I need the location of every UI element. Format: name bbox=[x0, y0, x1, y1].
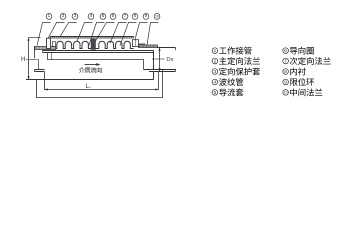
limit ring block bbox=[133, 40, 139, 47]
svg-text:6: 6 bbox=[112, 13, 115, 19]
callout circle 3 bbox=[72, 14, 78, 20]
callout circle 8 bbox=[132, 14, 138, 20]
legend item 6 bbox=[283, 48, 289, 54]
svg-text:5: 5 bbox=[102, 13, 105, 19]
callout circle 10 bbox=[154, 14, 160, 20]
weld hatch right bbox=[139, 44, 146, 46]
callout circle 4 bbox=[88, 14, 94, 20]
right pipe bottom bbox=[144, 69, 176, 71]
guide ring dark column bbox=[91, 39, 96, 50]
legend item 10 bbox=[283, 90, 289, 96]
svg-text:7: 7 bbox=[124, 13, 127, 19]
svg-text:3: 3 bbox=[214, 69, 217, 74]
svg-text:1: 1 bbox=[48, 13, 51, 19]
shell bottom bbox=[26, 79, 154, 81]
callout 1 leader bbox=[37, 23, 51, 46]
bellows wave bbox=[56, 41, 134, 48]
legend item 7 bbox=[283, 58, 289, 64]
svg-text:8: 8 bbox=[284, 69, 287, 74]
callout 10 leader bbox=[147, 23, 159, 46]
legend item 9 bbox=[283, 79, 289, 85]
centerline ticks bbox=[26, 59, 39, 61]
callout 9 leader bbox=[135, 23, 148, 42]
callout circle 6 bbox=[110, 14, 116, 20]
svg-text:9: 9 bbox=[284, 80, 287, 85]
svg-text:4: 4 bbox=[214, 80, 217, 85]
inner liner outline bbox=[48, 53, 144, 70]
svg-text:1: 1 bbox=[214, 48, 217, 53]
callout 2 leader bbox=[48, 23, 65, 40]
right pipe mouth bbox=[175, 48, 177, 51]
left inner step bbox=[38, 60, 40, 70]
legend item 1 bbox=[212, 48, 218, 54]
flow arrow bbox=[85, 64, 99, 66]
bottom extension box bbox=[37, 70, 163, 98]
right pipe hatched strip bbox=[139, 45, 158, 48]
svg-text:5: 5 bbox=[214, 90, 217, 95]
svg-text:9: 9 bbox=[145, 13, 148, 19]
callout 4 leader bbox=[77, 23, 93, 42]
right pipe top bbox=[158, 47, 176, 49]
dimension H bbox=[28, 38, 30, 80]
svg-text:10: 10 bbox=[284, 90, 288, 94]
legend item 2 bbox=[212, 58, 218, 64]
left work pipe mouth bbox=[34, 47, 36, 59]
flow direction text bbox=[79, 67, 85, 73]
left flange hatched strip bbox=[35, 47, 56, 50]
svg-text:2: 2 bbox=[62, 13, 65, 19]
left pipe bottom wall bbox=[35, 69, 45, 71]
svg-text:8: 8 bbox=[134, 13, 137, 19]
callout 6 leader bbox=[94, 23, 115, 45]
callout 3 leader bbox=[60, 23, 77, 37]
expansion joint technical drawing bbox=[0, 0, 350, 107]
callout circle 7 bbox=[122, 14, 128, 20]
callout 7 leader bbox=[110, 23, 127, 44]
bellows root collar bbox=[53, 42, 56, 47]
legend item 8 bbox=[283, 69, 289, 75]
callout circle 2 bbox=[60, 14, 66, 20]
shell right end wall bbox=[153, 51, 155, 70]
dimension Dx bbox=[159, 48, 161, 72]
callout 8 leader bbox=[120, 23, 137, 46]
protective sleeve top strip bbox=[50, 36, 134, 38]
dimension L bbox=[45, 72, 159, 90]
svg-text:3: 3 bbox=[74, 13, 77, 19]
svg-text:Dx: Dx bbox=[166, 57, 173, 63]
svg-text:H: H bbox=[21, 56, 25, 63]
legend item 4 bbox=[212, 79, 218, 85]
callout circle 5 bbox=[100, 14, 106, 20]
svg-text:4: 4 bbox=[90, 13, 93, 19]
svg-text:2: 2 bbox=[214, 59, 217, 64]
callout circle 1 bbox=[46, 14, 52, 20]
callout circle 9 bbox=[143, 14, 149, 20]
legend item 5 bbox=[212, 90, 218, 96]
svg-text:10: 10 bbox=[155, 14, 159, 18]
main directional flange block bbox=[47, 38, 51, 48]
svg-text:7: 7 bbox=[284, 59, 287, 64]
outer shell top wall bbox=[43, 50, 154, 52]
legend item 3 bbox=[212, 69, 218, 75]
callout 5 leader bbox=[88, 23, 105, 48]
svg-text:6: 6 bbox=[284, 48, 287, 53]
